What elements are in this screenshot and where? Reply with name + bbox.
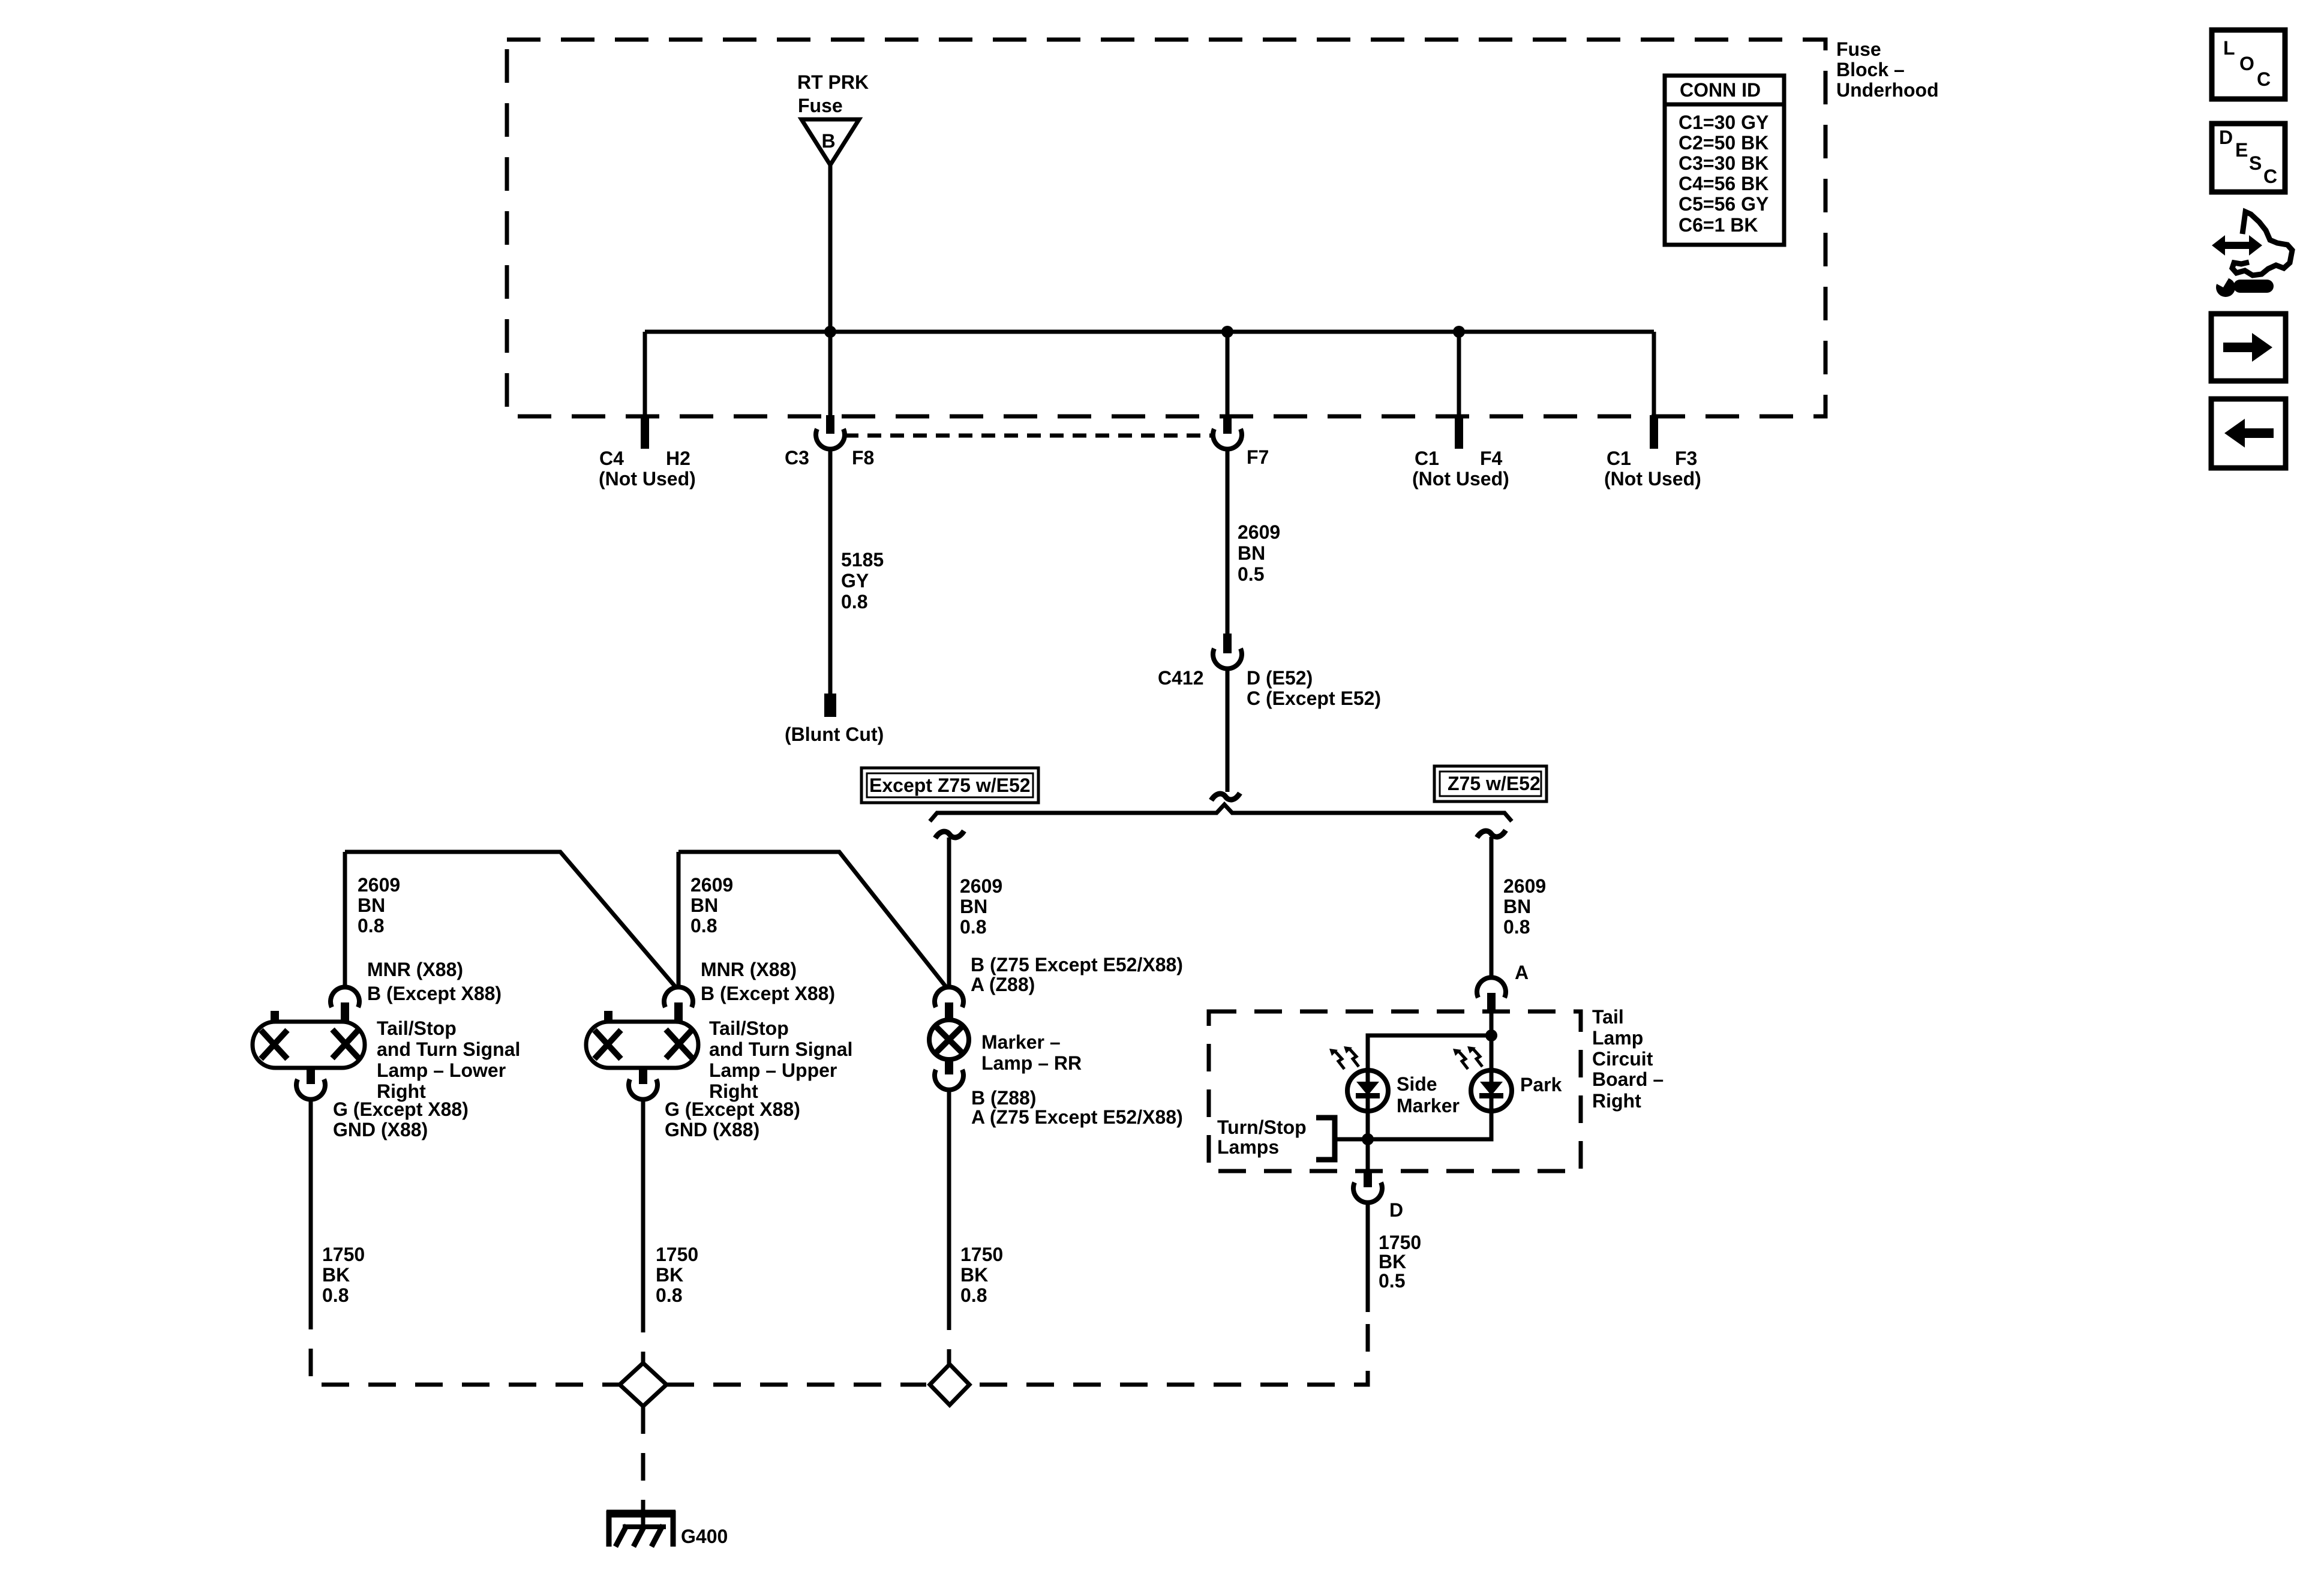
wire label 2609 BN 0.8 (Z75)	[1503, 875, 1546, 938]
terminal pin F7	[1223, 415, 1232, 434]
svg-text:B (Z88): B (Z88)	[971, 1087, 1036, 1109]
wire label 1750 BK 0.8 (marker)	[960, 1244, 1003, 1306]
svg-text:D: D	[2219, 127, 2233, 148]
blunt cut terminal	[824, 694, 836, 717]
splice diamond on lamp2 ground	[620, 1363, 666, 1406]
pin A into circuit board	[1487, 993, 1496, 1013]
wire drop to C1/F4	[1457, 332, 1461, 416]
svg-text:0.8: 0.8	[960, 1284, 987, 1306]
svg-text:0.8: 0.8	[1503, 916, 1530, 938]
svg-text:H2: H2	[666, 448, 690, 469]
svg-text:BN: BN	[1238, 542, 1265, 564]
terminal pin C1/F4 (not used)	[1455, 415, 1463, 449]
pin lamp2 bottom	[639, 1068, 647, 1084]
wire label 2609 BN 0.8 (marker)	[960, 875, 1002, 938]
svg-text:O: O	[2239, 53, 2254, 74]
svg-text:2609: 2609	[690, 874, 733, 896]
junction dot top inside board	[1485, 1029, 1497, 1041]
pin label C1 F4 (Not Used)	[1412, 448, 1509, 490]
svg-text:Fuse: Fuse	[798, 95, 843, 116]
svg-text:C3=30 BK: C3=30 BK	[1679, 152, 1768, 174]
icon LOC box	[2212, 30, 2285, 99]
svg-text:2609: 2609	[1238, 521, 1280, 543]
connector at lamp2 pin B	[664, 987, 693, 1007]
option split line with center bump and end ticks	[930, 804, 1512, 821]
pin label MNR (X88) / B (Except X88) lamp1	[367, 959, 502, 1004]
bus wire inside fuse block	[645, 330, 1654, 334]
wire marker ground 1750 BK 0.8	[947, 1089, 951, 1302]
wire lamp1 vertical 2609	[343, 852, 347, 989]
svg-text:MNR (X88): MNR (X88)	[367, 959, 463, 980]
pin D of circuit board	[1364, 1173, 1372, 1187]
wire lamp1 ground dashed to bus	[311, 1302, 620, 1385]
lamp L2 Tail/Stop and Turn Signal Lamp - Upper Right (bulb)	[586, 1022, 698, 1068]
wire label 1750 BK 0.8 (lamp1)	[322, 1244, 365, 1306]
svg-text:F3: F3	[1675, 448, 1697, 469]
svg-text:C5=56 GY: C5=56 GY	[1679, 193, 1768, 215]
junction dot bottom inside board	[1362, 1133, 1374, 1145]
svg-text:F7: F7	[1247, 446, 1269, 468]
svg-text:2609: 2609	[1503, 875, 1546, 897]
pin marker top	[945, 1002, 953, 1020]
svg-text:0.8: 0.8	[358, 915, 384, 936]
pin lamp1 top	[341, 1002, 349, 1022]
wire label 2609 BN 0.8 (lamp1)	[358, 874, 400, 936]
svg-text:Lamp – Upper: Lamp – Upper	[709, 1059, 837, 1081]
connector C3/F8	[816, 429, 845, 449]
svg-text:Marker –: Marker –	[981, 1031, 1061, 1053]
svg-text:0.5: 0.5	[1379, 1270, 1405, 1292]
wire lamp2 ground dashed to splice	[641, 1305, 645, 1363]
connector F7	[1213, 429, 1242, 449]
svg-text:Tail: Tail	[1592, 1006, 1624, 1028]
svg-text:C: C	[2263, 166, 2277, 187]
connector at marker lamp bottom	[935, 1070, 963, 1090]
LED side marker	[1347, 1070, 1388, 1111]
wire side marker to bottom junction	[1366, 1111, 1370, 1139]
svg-text:0.8: 0.8	[960, 916, 986, 938]
svg-text:BN: BN	[1503, 896, 1531, 917]
svg-text:(Not Used): (Not Used)	[599, 468, 696, 490]
svg-text:Lamps: Lamps	[1217, 1136, 1279, 1158]
svg-text:MNR (X88): MNR (X88)	[701, 959, 797, 980]
icon next arrow box	[2211, 314, 2286, 381]
label Turn/Stop Lamps	[1217, 1116, 1307, 1158]
svg-text:BN: BN	[358, 894, 385, 916]
svg-text:BK: BK	[656, 1264, 683, 1286]
LED park	[1471, 1070, 1512, 1111]
connector at marker lamp pin	[935, 987, 963, 1007]
icon back arrow box	[2211, 399, 2286, 468]
connector at circuit board pin A	[1477, 977, 1506, 998]
svg-text:BK: BK	[322, 1264, 350, 1286]
svg-text:Lamp – Lower: Lamp – Lower	[377, 1059, 506, 1081]
label RT PRK Fuse	[797, 71, 869, 116]
ground G400 symbol	[606, 1509, 675, 1547]
svg-text:Underhood: Underhood	[1836, 79, 1939, 101]
svg-text:BN: BN	[960, 896, 987, 917]
svg-text:Tail/Stop: Tail/Stop	[377, 1017, 457, 1039]
svg-text:0.8: 0.8	[841, 591, 867, 613]
label Side Marker	[1397, 1073, 1460, 1116]
svg-text:S: S	[2249, 152, 2262, 174]
wire 2609 BN 0.5	[1226, 448, 1230, 634]
label Tail Lamp Circuit Board - Right	[1592, 1006, 1664, 1112]
svg-text:BK: BK	[960, 1264, 988, 1286]
svg-text:Fuse: Fuse	[1836, 38, 1881, 60]
junction dot at F4 drop	[1453, 326, 1465, 338]
light arrows side marker	[1329, 1046, 1359, 1069]
wire junction down to pin D	[1366, 1139, 1370, 1171]
svg-text:C6=1 BK: C6=1 BK	[1679, 214, 1758, 236]
svg-text:BK: BK	[1379, 1251, 1406, 1272]
fuse block - underhood dashed outline	[507, 40, 1825, 416]
tail lamp circuit board dashed outline	[1209, 1011, 1581, 1171]
svg-text:GND (X88): GND (X88)	[333, 1119, 428, 1140]
wire lamp2 branch (horizontal+diagonal to marker connector)	[678, 852, 946, 987]
wire marker branch vertical	[947, 837, 951, 989]
terminal pin C3/F8	[826, 415, 834, 434]
CONN ID table	[1665, 76, 1784, 245]
svg-text:Lamp: Lamp	[1592, 1027, 1643, 1049]
wire label 2609 BN 0.8 (lamp2)	[690, 874, 733, 936]
svg-text:B (Z75 Except E52/X88): B (Z75 Except E52/X88)	[971, 954, 1183, 975]
wire Z75 branch vertical	[1490, 837, 1494, 980]
svg-text:Marker: Marker	[1397, 1095, 1460, 1116]
svg-text:1750: 1750	[1379, 1232, 1421, 1253]
connector at lamp1 pin B	[331, 987, 359, 1007]
junction dot at F7 drop	[1221, 326, 1233, 338]
wire label 1750 BK 0.8 (lamp2)	[656, 1244, 698, 1306]
connector at lamp2 pin G	[629, 1079, 657, 1100]
wire bracket to bottom junction	[1335, 1137, 1368, 1142]
wire park to bottom bus	[1368, 1111, 1491, 1139]
pin label B (Z88) / A (Z75 Except E52/X88)	[971, 1087, 1183, 1128]
connector at lamp1 pin G	[296, 1079, 325, 1100]
connector C412	[1213, 649, 1242, 669]
pin label G (Except X88) / GND (X88) lamp1	[333, 1098, 469, 1140]
svg-text:0.8: 0.8	[322, 1284, 349, 1306]
svg-text:Except Z75 w/E52: Except Z75 w/E52	[869, 775, 1031, 796]
icon DESC box	[2212, 124, 2285, 192]
svg-text:2609: 2609	[960, 875, 1002, 897]
svg-text:E: E	[2235, 139, 2248, 161]
svg-text:Turn/Stop: Turn/Stop	[1217, 1116, 1307, 1138]
svg-text:2609: 2609	[358, 874, 400, 896]
svg-text:and Turn Signal: and Turn Signal	[377, 1038, 520, 1060]
option label box Z75 w/E52	[1434, 766, 1547, 801]
option tilde right branch	[1477, 830, 1506, 837]
wire label 2609 BN 0.5	[1238, 521, 1280, 585]
svg-text:C4: C4	[599, 448, 624, 469]
svg-text:L: L	[2223, 37, 2235, 59]
svg-text:0.5: 0.5	[1238, 563, 1264, 585]
pin label C3 F8	[785, 447, 874, 469]
svg-text:Block –: Block –	[1836, 59, 1905, 80]
svg-text:F4: F4	[1480, 448, 1503, 469]
junction dot at fuse/bus	[824, 326, 836, 338]
svg-text:B (Except X88): B (Except X88)	[367, 983, 502, 1004]
label Tail/Stop and Turn Signal Lamp - Upper Right	[709, 1017, 852, 1102]
svg-text:C412: C412	[1158, 667, 1204, 689]
wire fuse to bus	[828, 165, 833, 332]
svg-text:D: D	[1389, 1199, 1403, 1221]
option label box Except Z75 w/E52	[861, 768, 1038, 803]
wire drop to C4/H2	[643, 332, 647, 416]
lamp2 unused prong	[604, 1011, 612, 1022]
svg-text:Z75 w/E52: Z75 w/E52	[1448, 773, 1541, 794]
label Marker - Lamp - RR	[981, 1031, 1082, 1074]
turn/stop lamps feed bracket	[1316, 1118, 1335, 1160]
svg-text:Lamp – RR: Lamp – RR	[981, 1052, 1082, 1074]
terminal pin C1/F3 (not used)	[1650, 415, 1658, 449]
svg-text:and Turn Signal: and Turn Signal	[709, 1038, 852, 1060]
wire 1750 BK 0.5	[1366, 1202, 1370, 1312]
svg-text:GND (X88): GND (X88)	[665, 1119, 759, 1140]
svg-text:D (E52): D (E52)	[1247, 667, 1313, 689]
connector at pin D	[1353, 1182, 1382, 1203]
pin label D (E52) / C (Except E52)	[1247, 667, 1381, 709]
svg-text:A: A	[1515, 962, 1529, 983]
svg-text:0.8: 0.8	[690, 915, 717, 936]
svg-text:Right: Right	[1592, 1090, 1641, 1112]
svg-text:Circuit: Circuit	[1592, 1048, 1653, 1070]
harness boundary dashed line between C3 and F7	[845, 434, 1213, 438]
wire drop to F7	[1226, 332, 1230, 416]
svg-text:RT PRK: RT PRK	[797, 71, 869, 93]
lamp E1 Marker Lamp - RR (bulb)	[929, 1020, 969, 1059]
svg-text:CONN ID: CONN ID	[1680, 79, 1761, 101]
option tilde left branch	[935, 831, 964, 838]
wire label 1750 BK 0.5	[1379, 1232, 1421, 1292]
svg-text:C2=50 BK: C2=50 BK	[1679, 132, 1768, 154]
label Fuse Block - Underhood	[1836, 38, 1939, 101]
svg-text:GY: GY	[841, 570, 869, 592]
svg-text:C1=30 GY: C1=30 GY	[1679, 112, 1768, 133]
svg-text:C1: C1	[1607, 448, 1631, 469]
svg-text:C: C	[2257, 68, 2271, 90]
svg-text:Tail/Stop: Tail/Stop	[709, 1017, 789, 1039]
wire 5185 GY 0.8	[828, 448, 833, 694]
pin marker bottom	[945, 1059, 953, 1074]
svg-text:G (Except X88): G (Except X88)	[665, 1098, 800, 1120]
svg-text:B (Except X88): B (Except X88)	[701, 983, 835, 1004]
wire lamp2 vertical 2609	[677, 852, 681, 989]
option-split tilde at feed	[1211, 793, 1240, 800]
wire pin A down inside board	[1490, 1011, 1494, 1070]
lamp1 unused prong	[271, 1011, 279, 1022]
svg-text:1750: 1750	[322, 1244, 365, 1265]
wire lamp2 ground 1750 BK 0.8	[641, 1098, 645, 1305]
wire lamp1 branch (horizontal+diagonal to lamp2 connector)	[345, 852, 675, 987]
splice diamond on marker ground	[930, 1364, 969, 1405]
lamp L1 Tail/Stop and Turn Signal Lamp - Lower Right (bulb)	[253, 1022, 365, 1068]
svg-text:Side: Side	[1397, 1073, 1437, 1095]
svg-text:(Not Used): (Not Used)	[1412, 468, 1509, 490]
svg-text:(Not Used): (Not Used)	[1604, 468, 1701, 490]
wire dashed down to ground bus (right)	[973, 1324, 1368, 1385]
svg-text:G (Except X88): G (Except X88)	[333, 1098, 469, 1120]
wire label 5185 GY 0.8	[841, 549, 884, 613]
svg-text:Park: Park	[1520, 1074, 1562, 1095]
svg-text:G400: G400	[681, 1526, 728, 1547]
label Tail/Stop and Turn Signal Lamp - Lower Right	[377, 1017, 520, 1102]
pin label G (Except X88) / GND (X88) lamp2	[665, 1098, 800, 1140]
svg-text:0.8: 0.8	[656, 1284, 682, 1306]
icon wiring/repair (arrow, outline, wrench)	[2212, 212, 2292, 297]
wire C412 to option split	[1226, 668, 1230, 792]
wire drop to C3/F8	[828, 332, 833, 416]
light arrows park	[1453, 1046, 1482, 1069]
svg-text:A (Z75 Except E52/X88): A (Z75 Except E52/X88)	[971, 1106, 1183, 1128]
pin label C1 F3 (Not Used)	[1604, 448, 1701, 490]
pin lamp1 bottom	[307, 1068, 315, 1084]
svg-text:A (Z88): A (Z88)	[971, 974, 1035, 995]
wire top branch to side marker	[1368, 1035, 1491, 1070]
terminal pin into C412	[1223, 634, 1232, 653]
svg-text:1750: 1750	[656, 1244, 698, 1265]
ground bus dashed between diamonds	[666, 1383, 926, 1387]
pin label MNR (X88) / B (Except X88) lamp2	[701, 959, 835, 1004]
wire lamp1 ground 1750 BK 0.8	[309, 1098, 313, 1302]
svg-text:C (Except E52): C (Except E52)	[1247, 688, 1381, 709]
fuse RT PRK (triangle symbol B)	[801, 119, 859, 165]
svg-text:B: B	[821, 130, 835, 152]
svg-text:C3: C3	[785, 447, 809, 469]
pin lamp2 top	[674, 1002, 683, 1022]
wire drop to C1/F3	[1652, 332, 1656, 416]
svg-text:C4=56 BK: C4=56 BK	[1679, 173, 1768, 194]
svg-text:C1: C1	[1415, 448, 1439, 469]
svg-text:5185: 5185	[841, 549, 884, 571]
pin label B (Z75 Except E52/X88) / A (Z88)	[971, 954, 1183, 995]
svg-text:F8: F8	[852, 447, 874, 469]
svg-text:BN: BN	[690, 894, 718, 916]
svg-text:Board –: Board –	[1592, 1068, 1664, 1090]
wire dashed diamond to ground	[641, 1406, 645, 1509]
svg-text:(Blunt Cut): (Blunt Cut)	[785, 724, 884, 745]
pin label C4 H2 (Not Used)	[599, 448, 696, 490]
wire marker ground dashed to splice	[947, 1302, 951, 1364]
svg-text:1750: 1750	[960, 1244, 1003, 1265]
terminal pin C4/H2 (not used)	[641, 415, 649, 449]
